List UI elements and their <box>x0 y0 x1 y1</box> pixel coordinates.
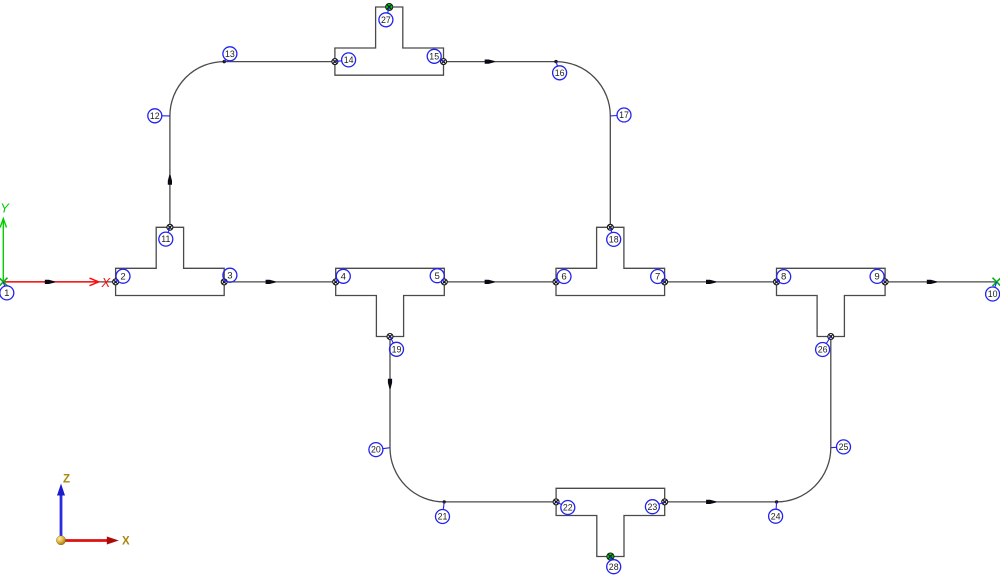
node label 12 <box>148 109 170 123</box>
wire pipe node15-node18 upper-right with bend <box>444 62 611 228</box>
node label 15 <box>427 49 443 63</box>
wire pipe node23-node26 lower-right with bend <box>665 337 831 502</box>
svg-text:24: 24 <box>771 511 781 521</box>
connection node 19 <box>387 334 393 340</box>
tee junction nodes 2-3-11 <box>116 227 225 295</box>
node label 10 <box>986 282 1000 301</box>
tee junction nodes 22-23-28 <box>556 488 665 556</box>
svg-text:X: X <box>122 536 130 548</box>
connection node 4 <box>333 279 339 285</box>
svg-text:Z: Z <box>63 474 70 486</box>
tee junction nodes 8-9-26 <box>777 268 886 336</box>
node label 11 <box>159 227 173 246</box>
node label 23 <box>645 500 664 514</box>
node label 20 <box>369 443 390 457</box>
flow arrow pipe1 <box>45 280 55 284</box>
connection node 6 <box>553 279 559 285</box>
wire pipe node5-node6 <box>444 281 556 283</box>
svg-text:27: 27 <box>381 15 391 25</box>
connection node 2 <box>113 279 119 285</box>
svg-text:28: 28 <box>609 562 619 572</box>
svg-text:1: 1 <box>4 288 9 299</box>
flow arrow pipe3-4 <box>266 280 276 284</box>
svg-text:5: 5 <box>435 271 440 282</box>
svg-text:8: 8 <box>781 272 786 283</box>
tee junction nodes 14-15-27 <box>335 7 444 75</box>
node label 28 <box>607 557 621 574</box>
svg-text:20: 20 <box>371 445 381 455</box>
svg-text:12: 12 <box>150 111 160 121</box>
origin ball (gold sphere) <box>56 536 65 545</box>
endpoint marker node 10 (green X) <box>993 278 1000 286</box>
node label 2 <box>116 269 130 283</box>
bend dot node21 <box>443 500 446 503</box>
wire pipe P1 node1-node2 <box>3 281 115 283</box>
svg-text:17: 17 <box>619 110 629 120</box>
wire pipe node7-node8 <box>665 281 777 283</box>
bend dot node13 <box>223 60 226 63</box>
node label 14 <box>335 53 356 67</box>
node label 25 <box>831 440 851 454</box>
svg-text:14: 14 <box>344 55 354 65</box>
connection node 5 <box>441 279 447 285</box>
connection node 7 <box>662 279 668 285</box>
svg-text:13: 13 <box>225 49 235 59</box>
svg-text:19: 19 <box>392 344 402 354</box>
node label 16 <box>553 62 567 80</box>
node label 27 <box>379 7 393 27</box>
flow arrow pipe23-24 <box>706 500 716 504</box>
flow arrow pipe15-16 <box>485 60 495 64</box>
node label 13 <box>223 47 237 62</box>
node label 5 <box>430 269 444 283</box>
connection node 15 <box>441 59 447 65</box>
node label 18 <box>607 227 621 246</box>
svg-text:X: X <box>101 275 112 290</box>
node label 4 <box>336 269 351 283</box>
svg-text:18: 18 <box>609 235 619 245</box>
connection node 27 (closed, green) <box>386 3 393 10</box>
node label 7 <box>651 270 665 284</box>
node label 17 <box>610 108 631 122</box>
wire pipe node3-node4 <box>224 281 336 283</box>
flow arrow pipe5-6 <box>485 280 495 284</box>
svg-text:9: 9 <box>874 272 879 283</box>
connection node 28 (closed, green) <box>607 553 614 560</box>
svg-text:15: 15 <box>429 51 439 61</box>
node label 3 <box>223 268 237 282</box>
node label 22 <box>556 501 575 515</box>
svg-text:Y: Y <box>0 201 10 216</box>
svg-text:22: 22 <box>563 503 573 513</box>
wire pipe node9-node10 <box>885 281 997 283</box>
connection node 18 <box>607 224 613 230</box>
svg-text:11: 11 <box>161 234 170 244</box>
bend dot node24 <box>775 500 778 503</box>
connection node 22 <box>553 499 559 505</box>
X axis arrow (red) bottom triad <box>63 537 119 545</box>
wire pipe node19-node22 lower-left with bend <box>390 337 556 502</box>
node label 9 <box>870 269 885 283</box>
connection node 9 <box>882 279 888 285</box>
tee junction nodes 6-7-18 <box>556 227 665 295</box>
node label 21 <box>436 502 450 524</box>
Y axis arrow (green) at origin <box>0 219 6 282</box>
tee junction nodes 4-5-19 <box>336 268 445 336</box>
wire pipe node11-node14 upper-left with bend <box>170 62 335 228</box>
connection node 14 <box>332 59 338 65</box>
node label 26 <box>816 337 831 357</box>
connection node 23 <box>662 499 668 505</box>
connection node 8 <box>774 279 780 285</box>
svg-text:7: 7 <box>655 272 660 283</box>
node label 8 <box>777 270 791 284</box>
svg-text:2: 2 <box>120 271 125 282</box>
svg-text:21: 21 <box>438 512 448 522</box>
svg-text:26: 26 <box>818 345 828 355</box>
svg-text:23: 23 <box>648 502 658 512</box>
flow arrow pipe19-20 down <box>388 379 392 389</box>
flow arrow pipe11-12 up <box>168 175 172 185</box>
node label 24 <box>769 502 783 523</box>
svg-text:16: 16 <box>555 68 565 78</box>
svg-text:6: 6 <box>561 272 566 283</box>
svg-text:3: 3 <box>227 270 232 281</box>
connection node 11 <box>167 224 173 230</box>
X axis arrow (red) at origin <box>3 278 98 286</box>
flow arrow pipe9-10 <box>927 280 937 284</box>
node label 1 <box>0 282 14 300</box>
endpoint marker node 1 (green X) <box>0 278 8 286</box>
flow arrow pipe7-8 <box>706 280 716 284</box>
svg-text:10: 10 <box>988 289 998 299</box>
svg-text:4: 4 <box>341 271 347 282</box>
connection node 26 <box>828 334 834 340</box>
node label 19 <box>390 337 404 357</box>
connection node 3 <box>221 279 227 285</box>
node label 6 <box>556 270 571 284</box>
bend dot node16 <box>554 60 557 63</box>
svg-text:25: 25 <box>839 442 849 452</box>
